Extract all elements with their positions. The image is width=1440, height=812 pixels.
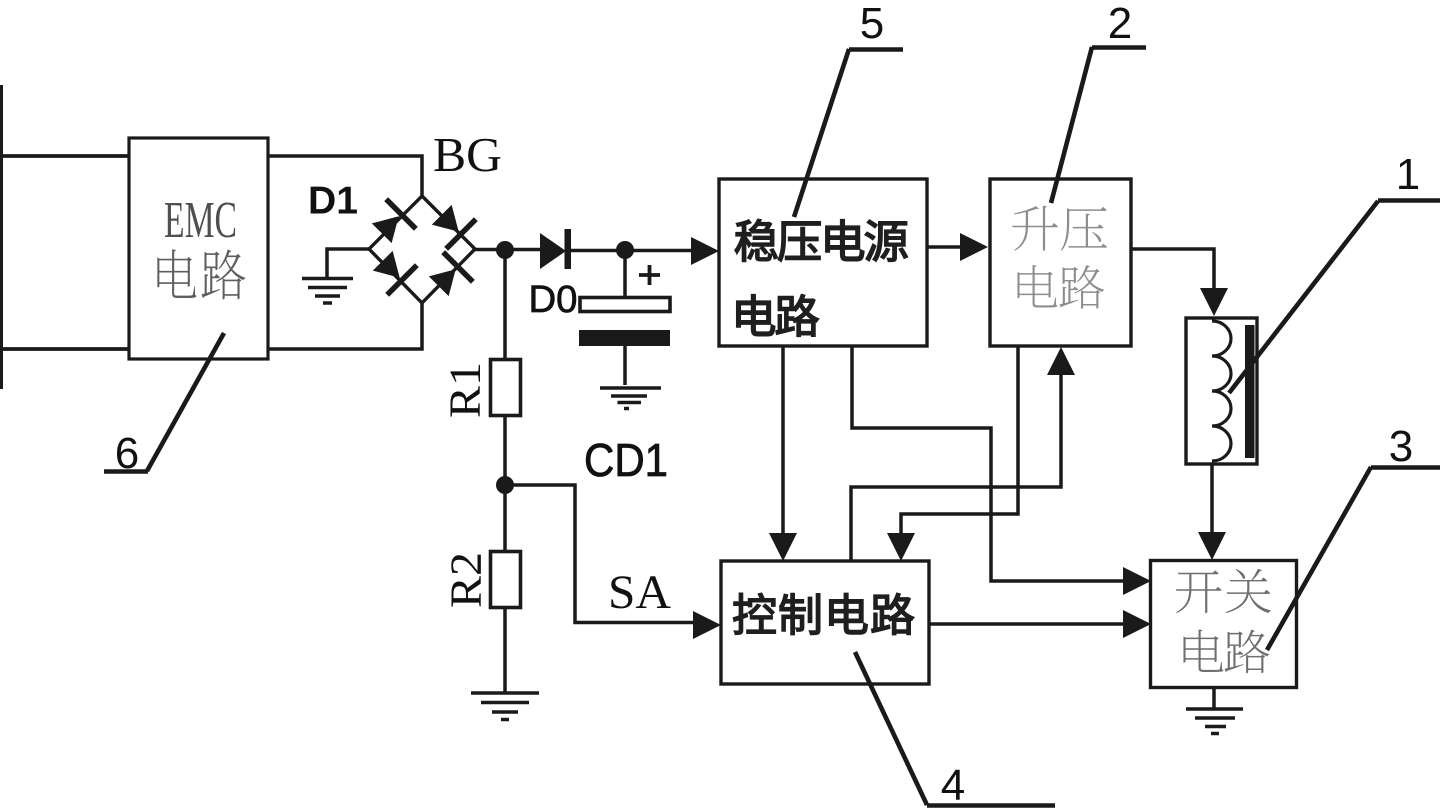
svg-text:3: 3 [1389, 422, 1413, 471]
svg-text:CD1: CD1 [584, 434, 668, 486]
svg-text:BG: BG [433, 127, 502, 182]
svg-text:2: 2 [1108, 0, 1132, 48]
svg-text:4: 4 [941, 761, 965, 810]
svg-text:D1: D1 [308, 180, 358, 223]
svg-text:1: 1 [1396, 150, 1420, 199]
svg-text:R2: R2 [442, 552, 491, 608]
svg-text:SA: SA [608, 566, 671, 619]
svg-text:R1: R1 [441, 362, 490, 418]
svg-text:5: 5 [860, 0, 884, 48]
svg-text:EMC: EMC [164, 192, 237, 249]
svg-text:6: 6 [115, 429, 139, 478]
svg-text:D0: D0 [529, 279, 578, 321]
